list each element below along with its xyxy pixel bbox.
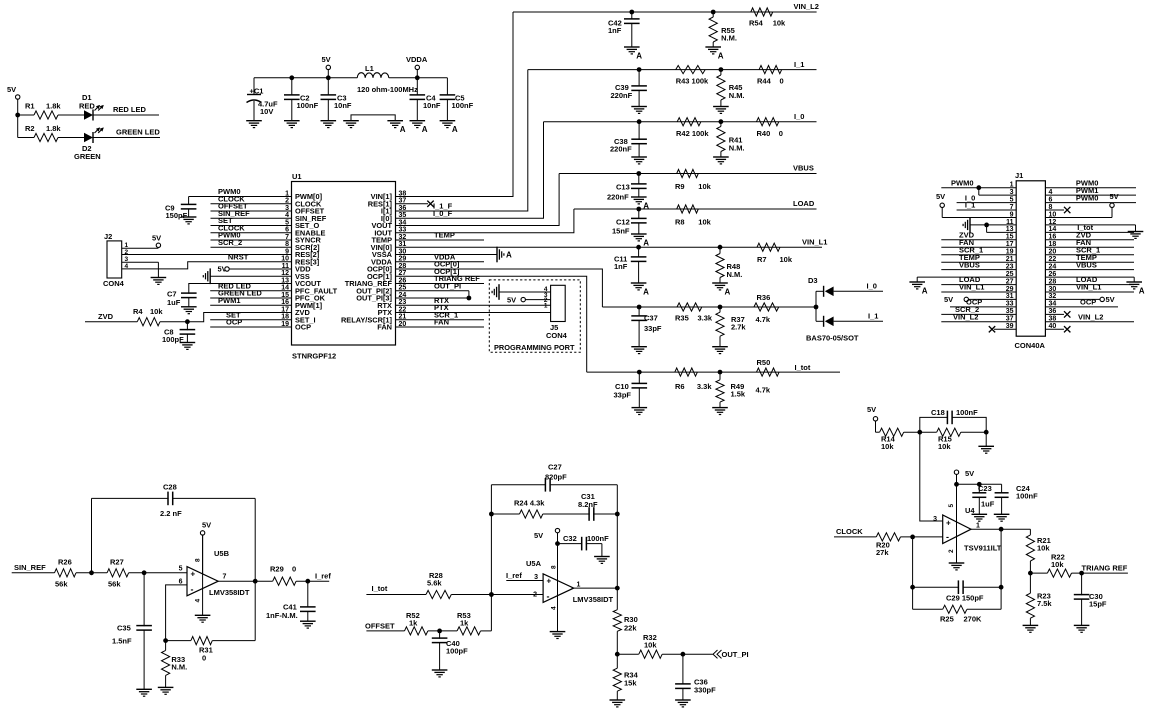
capacitor C37 33pF (638, 307, 640, 317)
svg-text:+C1: +C1 (250, 87, 264, 96)
ground (C1) (246, 120, 262, 122)
resistor R35 3.3k (677, 303, 702, 311)
no-connect X J1 pin8 (1045, 209, 1064, 211)
resistor R54 10k (751, 8, 773, 16)
wire VSSA pin30 (396, 254, 498, 256)
ground A (C5) (440, 120, 456, 122)
wire ground bridge (351, 115, 395, 121)
wire J1 pin12 to ground (1045, 224, 1135, 226)
wire SIN_REF (12, 572, 55, 574)
svg-text:R27: R27 (110, 558, 124, 567)
ground (C35) (136, 688, 152, 690)
svg-text:I_ref: I_ref (315, 571, 331, 580)
LED D1 RED (84, 110, 93, 120)
wire OFFSET pin3 (211, 210, 292, 212)
svg-text:A: A (718, 52, 724, 61)
svg-text:5V: 5V (202, 521, 211, 530)
node junction C32 (555, 541, 560, 546)
svg-text:A: A (452, 125, 458, 134)
wire (58, 114, 84, 116)
svg-text:VIN_L2: VIN_L2 (1078, 313, 1103, 322)
svg-text:TRIANG REF: TRIANG REF (1082, 563, 1128, 572)
svg-text:2: 2 (948, 549, 955, 553)
node junction C12 (636, 207, 641, 212)
svg-text:5V: 5V (1106, 295, 1115, 304)
wire offset to node (481, 630, 492, 632)
no-connect X J1 pin39 (994, 328, 1016, 330)
svg-text:TSV911ILT: TSV911ILT (964, 544, 1002, 553)
capacitor C11 1nF (638, 247, 640, 257)
svg-text:2.7k: 2.7k (731, 323, 746, 332)
node junction C40 (437, 629, 442, 634)
wire I_ref input (506, 580, 543, 582)
wire I_tot (366, 594, 426, 596)
resistor R32 10k (617, 653, 639, 655)
wire J1 pin3 (979, 194, 1016, 196)
wire output (218, 580, 273, 582)
capacitor C13 220nF (638, 174, 640, 185)
capacitor C5 100nF (446, 78, 448, 96)
wire (904, 431, 937, 433)
svg-text:330pF: 330pF (694, 686, 716, 695)
wire ZVD (85, 321, 137, 323)
svg-text:R43 100k: R43 100k (676, 77, 709, 86)
capacitor C31 8.2nF (543, 513, 590, 515)
ground A (bridge right) (387, 120, 403, 122)
ground (U5B pin4) (202, 535, 204, 615)
node junction ZVD/C8 (185, 319, 190, 324)
wire CLOCK (834, 536, 876, 538)
svg-text:R1: R1 (25, 102, 35, 111)
node junction D3 (814, 305, 819, 310)
svg-text:I_tot: I_tot (372, 584, 388, 593)
svg-text:3.3k: 3.3k (698, 314, 713, 323)
wire (876, 431, 880, 433)
LED D2 GREEN (84, 133, 93, 143)
capacitor C40 100pF (439, 631, 441, 639)
resistor R53 1k (457, 627, 480, 635)
svg-text:R36: R36 (757, 293, 771, 302)
wire J1 right VIN_L1 (1045, 291, 1134, 293)
node junction C13 (636, 171, 641, 176)
resistor R43 100k (676, 66, 706, 74)
ground A (J1 right) (1126, 281, 1142, 283)
resistor R28 5.6k (426, 590, 451, 598)
svg-text:10nF: 10nF (423, 101, 441, 110)
svg-text:10V: 10V (260, 107, 273, 116)
node junction (489, 592, 494, 597)
ground (U4 pin2) (949, 562, 965, 564)
resistor R21 10k (1029, 529, 1031, 535)
node junction OUT_PI row (615, 652, 620, 657)
inductor L1 120ohm-100MHz (357, 73, 389, 78)
svg-text:C12: C12 (616, 218, 630, 227)
ground (C23) (972, 513, 988, 515)
ground A (C11) (631, 282, 647, 284)
node junction R55 (711, 10, 716, 15)
wire IOUT pin33 to LOAD row (396, 209, 574, 233)
svg-text:I_tot: I_tot (795, 363, 811, 372)
ground (C24) (994, 513, 1010, 515)
svg-text:1.8k: 1.8k (46, 124, 61, 133)
svg-text:5V: 5V (152, 234, 161, 243)
ground (J5 pin4) (498, 284, 500, 300)
wire J1 right ZVD (1045, 239, 1134, 241)
wire VIN_L2 row (513, 11, 817, 13)
node junction (984, 430, 989, 435)
svg-text:8: 8 (195, 558, 202, 562)
wire (18, 114, 34, 116)
svg-text:A: A (922, 287, 928, 296)
svg-text:GREEN LED: GREEN LED (116, 128, 160, 137)
svg-text:10k: 10k (1037, 543, 1050, 552)
resistor R1 (34, 111, 58, 119)
wire feedback left (91, 498, 93, 572)
wire GREEN LED (93, 137, 160, 139)
capacitor C2 100nF (291, 78, 293, 96)
resistor R31 0 (166, 640, 191, 642)
wire J1 right TEMP (1045, 261, 1134, 263)
svg-text:CON4: CON4 (103, 279, 125, 288)
node junction R31/R33 (163, 638, 168, 643)
wire TRIANG REF pin26 (396, 283, 485, 285)
ground A (VSSA) (496, 247, 498, 263)
wire I_0 out (834, 290, 883, 292)
svg-text:R8: R8 (675, 218, 685, 227)
svg-text:A: A (643, 239, 649, 248)
svg-text:33pF: 33pF (644, 324, 662, 333)
svg-text:8: 8 (551, 565, 558, 569)
wire J1 pin1 PWM0 (941, 187, 1016, 189)
wire OCP[0] pin28 (396, 269, 603, 307)
svg-text:5V: 5V (944, 295, 953, 304)
svg-text:1k: 1k (460, 619, 469, 628)
capacitor C38 220nF (638, 122, 640, 140)
svg-text:I_1: I_1 (794, 60, 804, 69)
node junction C23 (977, 482, 982, 487)
wire I_ref (296, 580, 329, 582)
svg-text:1.5nF: 1.5nF (112, 637, 132, 646)
capacitor C32 100nF (558, 543, 583, 545)
svg-text:R44: R44 (757, 77, 772, 86)
ground (C18) (985, 432, 987, 446)
svg-text:-: - (547, 592, 550, 602)
wire (160, 321, 187, 323)
svg-text:ZVD: ZVD (98, 312, 114, 321)
svg-text:I_0: I_0 (794, 112, 804, 121)
node junction R37 (718, 305, 723, 310)
wire J1 left TEMP (941, 261, 1016, 263)
wire OUT_PI (662, 653, 713, 655)
svg-text:A: A (1139, 287, 1145, 296)
svg-text:100nF: 100nF (452, 101, 474, 110)
svg-text:TEMP: TEMP (434, 231, 455, 240)
svg-text:220nF: 220nF (611, 91, 633, 100)
resistor R14 10k (880, 428, 904, 436)
wire J1 right PWM0 (1045, 202, 1136, 204)
ground A (R48) (712, 282, 728, 284)
svg-text:RED LED: RED LED (113, 105, 147, 114)
wire J1 pin26 to ground (1045, 276, 1134, 278)
wire J1 left FAN (941, 246, 1016, 248)
svg-text:1nF: 1nF (614, 262, 628, 271)
svg-text:LMV358IDT: LMV358IDT (573, 595, 614, 604)
node junction C2 (289, 75, 294, 80)
connector J2 CON4 (107, 241, 122, 278)
svg-text:5V: 5V (322, 55, 331, 64)
resistor R37 2.7k (719, 307, 721, 312)
ground (R33) (158, 686, 174, 688)
wire OCP row (D3) (602, 306, 816, 308)
resistor R29 0 (273, 577, 296, 585)
wire VDD (229, 268, 291, 270)
ground (U5A pin4) (557, 533, 559, 632)
svg-text:5: 5 (948, 504, 955, 508)
svg-text:2: 2 (125, 249, 129, 256)
svg-text:OCP: OCP (226, 318, 242, 327)
capacitor C4 10nF (416, 78, 418, 96)
wire (58, 137, 84, 139)
wire GREEN LED pin15 (210, 297, 291, 299)
wire SCR_1 pin21 (396, 319, 485, 321)
wire TEMP pin32 (396, 239, 485, 241)
node junction pin11/13 (984, 223, 989, 228)
ground (C7) (181, 306, 197, 308)
capacitor C3 10nF (327, 78, 329, 96)
svg-text:22k: 22k (624, 624, 637, 633)
svg-text:R54: R54 (749, 19, 764, 28)
svg-text:8.2nF: 8.2nF (578, 500, 598, 509)
resistor R42 100k (677, 118, 701, 126)
resistor R8 10k (677, 205, 699, 213)
resistor R40 0 (757, 118, 779, 126)
resistor R24 4.3k (491, 513, 519, 515)
wire FAN pin20 (396, 326, 485, 328)
resistor R9 10k (677, 169, 699, 177)
svg-text:VIN_L2: VIN_L2 (794, 2, 819, 11)
wire VOUT pin34 to VBUS row (396, 174, 560, 226)
node junction C3 (326, 75, 331, 80)
wire ZVD to U1 pin17 (187, 313, 291, 322)
node junction R20/C29 (910, 535, 915, 540)
svg-text:I_0: I_0 (867, 282, 877, 291)
svg-text:100nF: 100nF (297, 101, 319, 110)
svg-text:1uF: 1uF (167, 298, 181, 307)
svg-text:4.7k: 4.7k (756, 315, 771, 324)
svg-text:VIN_L1: VIN_L1 (802, 238, 827, 247)
wire J5 pin2 (525, 299, 550, 301)
wire VIN[0] pin31 = VIN_L1 row (396, 246, 823, 248)
wire output (U4) (971, 528, 1030, 530)
wire J2 pin1 to 5V (122, 247, 159, 249)
wire (961, 431, 986, 433)
node junction (615, 512, 620, 517)
svg-text:5V: 5V (936, 192, 945, 201)
ground A (C13) (631, 196, 647, 198)
wire I_tot row (587, 371, 840, 373)
svg-text:820pF: 820pF (545, 473, 567, 482)
svg-text:27k: 27k (876, 548, 889, 557)
ground (C36) (675, 699, 691, 701)
svg-text:OUT_PI: OUT_PI (722, 650, 749, 659)
node junction R45 (719, 67, 724, 72)
svg-text:LMV358IDT: LMV358IDT (209, 588, 250, 597)
resistor R49 1.5k (719, 372, 721, 380)
wire bypass (957, 483, 1002, 485)
node junction 5V/R1/R2 (15, 113, 20, 118)
svg-text:2.2 nF: 2.2 nF (160, 509, 182, 518)
svg-text:0: 0 (292, 565, 296, 574)
wire feedback right (U4) (1000, 529, 1002, 609)
capacitor C9 150pF (188, 197, 190, 206)
svg-text:VDDA: VDDA (406, 55, 428, 64)
ground (J2) (151, 277, 167, 279)
capacitor C30 15pF (1081, 573, 1083, 595)
capacitor C23 1uF (978, 484, 980, 493)
svg-text:1: 1 (976, 523, 980, 530)
wire inverting input (166, 585, 187, 641)
node junction pins1/3 (976, 185, 981, 190)
svg-text:R4: R4 (133, 307, 143, 316)
svg-text:1uF: 1uF (981, 499, 995, 508)
svg-text:A: A (506, 251, 512, 260)
svg-text:R42 100k: R42 100k (676, 129, 709, 138)
svg-text:LOAD: LOAD (793, 199, 815, 208)
wire VSS (210, 275, 291, 277)
connector J1 CON40A (1016, 181, 1045, 336)
port OUT_PI (713, 650, 718, 658)
wire J1 pin33 OCP (950, 306, 1016, 308)
wire to +in (129, 572, 187, 574)
wire J1 pin11 (970, 224, 1016, 226)
resistor R50 4.7k (757, 368, 780, 376)
svg-text:I_1: I_1 (868, 312, 878, 321)
svg-text:0: 0 (779, 129, 783, 138)
capacitor C8 100pF (186, 322, 188, 331)
svg-text:OCP: OCP (1080, 298, 1096, 307)
svg-text:FAN: FAN (434, 318, 449, 327)
svg-text:C32: C32 (563, 534, 577, 543)
wire VCOUT pin13 (189, 284, 292, 294)
resistor R4 10k (137, 318, 160, 326)
wire D3 common (815, 291, 817, 321)
ground (C38) (631, 156, 647, 158)
svg-text:120 ohm-100MHz: 120 ohm-100MHz (357, 85, 418, 94)
node junction C4 (415, 75, 420, 80)
ground (R37) (712, 346, 728, 348)
svg-text:C37: C37 (644, 314, 658, 323)
wire J1 pin38 VIN_L2 (1045, 321, 1134, 323)
resistor R20 27k (876, 533, 900, 541)
ground (U1 VSS pin12) (209, 268, 211, 284)
svg-text:R50: R50 (757, 358, 771, 367)
svg-text:1k: 1k (409, 619, 418, 628)
svg-text:100pF: 100pF (446, 647, 468, 656)
resistor R25 270K (913, 608, 943, 610)
wire PTX pin22 (396, 312, 554, 314)
wire I_1_F pin36 (396, 70, 528, 211)
svg-text:VIN_L1: VIN_L1 (1076, 283, 1101, 292)
wire (17, 115, 19, 138)
svg-text:VIN_L2: VIN_L2 (953, 313, 978, 322)
svg-text:PWM1: PWM1 (218, 296, 241, 305)
wire I_0_F pin35 (396, 122, 544, 219)
svg-text:1nF: 1nF (608, 26, 622, 35)
resistor R44 0 (759, 66, 782, 74)
svg-text:4.7k: 4.7k (756, 386, 771, 395)
wire J2 pin4 NRST (122, 262, 292, 269)
svg-text:N.M.: N.M. (171, 663, 187, 672)
svg-text:J2: J2 (104, 232, 112, 241)
svg-text:R2: R2 (25, 124, 35, 133)
wire J1 pin10 (1045, 217, 1112, 219)
svg-text:C35: C35 (117, 624, 131, 633)
svg-text:C29 150pF: C29 150pF (946, 594, 984, 603)
node junction C36 (681, 652, 686, 657)
svg-text:6: 6 (179, 578, 183, 585)
node junction (910, 585, 915, 590)
wire J1 right VBUS (1045, 269, 1134, 271)
resistor R41 N.M. (720, 122, 722, 127)
svg-text:10k: 10k (938, 442, 951, 451)
wire J1 left VBUS (941, 269, 1016, 271)
svg-text:I_1: I_1 (965, 201, 975, 210)
wire J1 left SCR_1 (941, 254, 1016, 256)
svg-text:SCR_2: SCR_2 (218, 238, 242, 247)
resistor R30 22k (616, 588, 618, 610)
svg-text:FAN: FAN (377, 323, 392, 332)
node junction output (615, 586, 620, 591)
wire PWM0 pin1 (189, 196, 292, 198)
ground (R45) (713, 106, 729, 108)
svg-text:-: - (946, 532, 949, 542)
node junction C30 (1079, 571, 1084, 576)
svg-text:A: A (643, 288, 649, 297)
wire feedback left (U4) (912, 537, 914, 609)
wire CLOCK pin6 (211, 232, 292, 234)
power symbol 5V (U4) (954, 470, 958, 474)
wire J1 pin34 OCP (1045, 306, 1118, 308)
ground A (C4) (410, 120, 426, 122)
wire SCR_2 pin8 (211, 246, 292, 248)
capacitor C1 polarized (253, 78, 255, 95)
wire (601, 544, 603, 557)
wire J1 right PWM0 (1045, 187, 1136, 189)
svg-text:R7: R7 (757, 255, 767, 264)
wire VDDA pin29 (396, 261, 485, 263)
svg-text:5: 5 (179, 566, 183, 573)
resistor R36 4.7k (754, 303, 779, 311)
svg-text:N.M.: N.M. (729, 91, 745, 100)
svg-text:N.M.: N.M. (729, 144, 745, 153)
svg-text:R25: R25 (940, 615, 954, 624)
svg-text:10k: 10k (150, 307, 163, 316)
svg-text:56k: 56k (55, 580, 68, 589)
svg-text:3: 3 (933, 516, 937, 523)
svg-text:C27: C27 (548, 463, 562, 472)
svg-text:150pF: 150pF (166, 211, 188, 220)
capacitor C36 330pF (682, 654, 684, 684)
svg-text:15pF: 15pF (1089, 600, 1107, 609)
svg-text:10k: 10k (698, 182, 711, 191)
wire J1 left LOAD (941, 284, 1016, 286)
svg-text:I_0_F: I_0_F (433, 209, 453, 218)
svg-text:33pF: 33pF (614, 390, 632, 399)
wire SET pin18 (210, 319, 291, 321)
svg-text:10nF: 10nF (334, 101, 352, 110)
svg-text:+: + (191, 569, 196, 578)
svg-text:100nF: 100nF (1016, 491, 1038, 500)
